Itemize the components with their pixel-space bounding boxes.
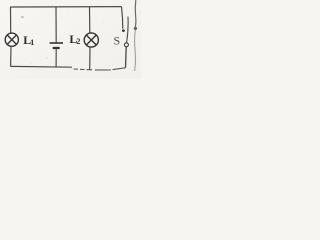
battery: top lead wire (55, 7, 57, 42)
svg-text:2: 2 (76, 37, 80, 46)
switch S: fixed terminal dot (122, 29, 125, 32)
lamp L1 (5, 33, 18, 46)
scan artifact: faint speckle dots (21, 16, 24, 19)
wire: right rail lower (125, 47, 128, 68)
switch S: blade (open, swung up-right) (127, 17, 129, 43)
wire: bottom rail right (broken scan dashes) (74, 68, 126, 70)
wire: top rail (11, 6, 122, 8)
lamp L2 (84, 33, 98, 47)
lamp L2: bottom lead wire (89, 47, 91, 70)
battery: short plate (-) (53, 47, 60, 49)
battery: bottom lead wire (55, 49, 57, 67)
svg-text:1: 1 (30, 38, 34, 47)
wire: left rail lower (10, 46, 12, 66)
wire: left rail upper (10, 7, 12, 34)
wire: right rail upper (to switch) (122, 7, 123, 29)
battery: long plate (+) (50, 42, 63, 44)
scan artifact: stray vertical stroke at right edge (134, 0, 137, 27)
switch S: pivot contact circle (124, 43, 128, 47)
lamp L2: top lead wire (89, 7, 91, 33)
wire: bottom rail left (solid) (10, 65, 72, 68)
svg-text:S: S (114, 34, 121, 48)
